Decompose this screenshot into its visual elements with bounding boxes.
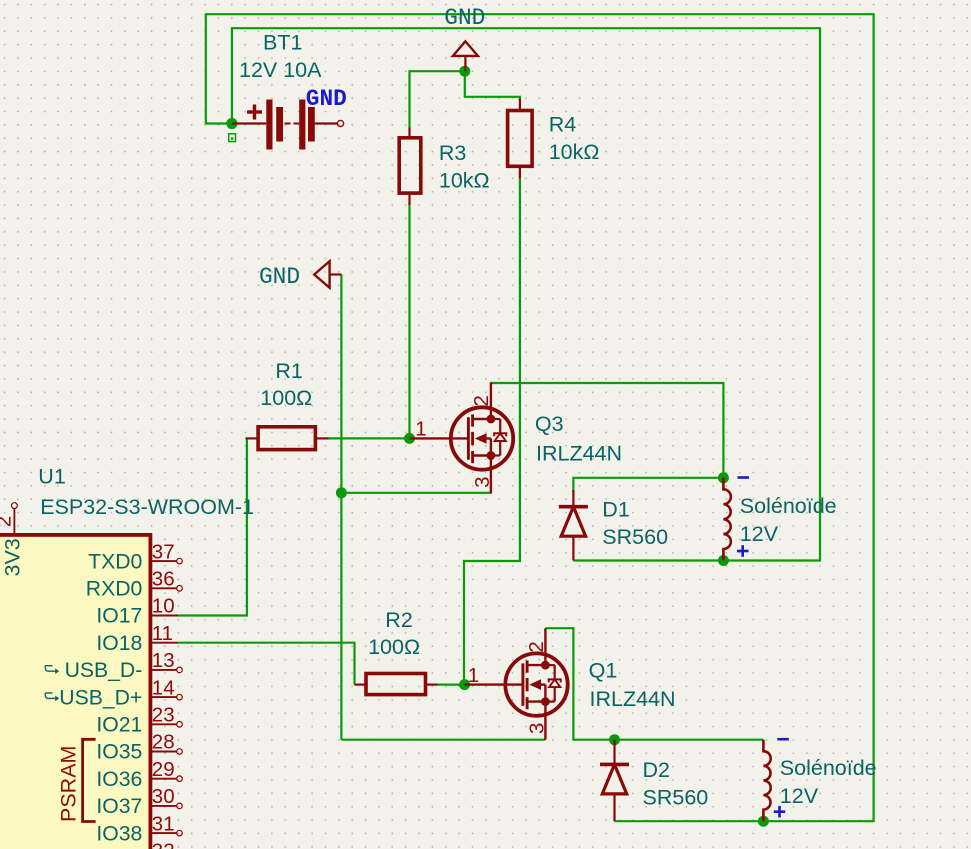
svg-text:IO37: IO37 (96, 795, 142, 818)
wire battery+ inner rail to solenoide1 bottom (232, 28, 820, 560)
svg-text:3: 3 (471, 476, 494, 487)
junction solenoide2 bottom node (758, 816, 769, 827)
pin 30 IO37 U1 (96, 785, 182, 818)
wire solenoide1 top to D1 cathode (573, 478, 723, 492)
svg-text:13: 13 (152, 649, 175, 672)
pin 2 3V3 top (12, 503, 18, 535)
junction Q3 gate node (404, 433, 415, 444)
svg-text:37: 37 (152, 540, 175, 563)
IC U1 ESP32-S3-WROOM-1 body (0, 535, 150, 849)
svg-text:36: 36 (152, 568, 175, 591)
svg-text:30: 30 (152, 785, 175, 808)
svg-text:PSRAM: PSRAM (57, 746, 81, 822)
svg-text:IO18: IO18 (96, 632, 142, 655)
svg-text:10kΩ: 10kΩ (439, 169, 490, 193)
wire GND row to Q1 source (341, 739, 545, 741)
wire Q1 drain to solenoide2 top (545, 628, 763, 740)
polarity plus solenoide 2 (774, 810, 786, 813)
svg-text:Solénoïde: Solénoïde (780, 756, 877, 780)
svg-text:IO38: IO38 (96, 822, 142, 845)
pin 32 IO48 U1 (152, 840, 175, 849)
svg-text:12V: 12V (780, 784, 819, 808)
pin 11 IO18 U1 (96, 622, 178, 655)
polarity plus solenoide 1 (737, 550, 749, 553)
svg-text:28: 28 (152, 731, 175, 754)
svg-text:100Ω: 100Ω (368, 635, 420, 659)
junction GND node (459, 66, 470, 77)
D1 cathode pin (572, 490, 574, 507)
inductor solenoide 1 (723, 478, 730, 561)
pin 10 IO17 U1 (96, 595, 178, 628)
svg-text:14: 14 (152, 676, 175, 699)
pin 29 IO36 U1 (96, 758, 182, 791)
svg-text:USB_D+: USB_D+ (59, 686, 142, 709)
wire R2 right to Q1 gate node (438, 683, 465, 685)
svg-text:GND: GND (259, 264, 300, 290)
svg-text:D1: D1 (602, 498, 629, 522)
D2 anode pin (613, 794, 615, 821)
PSRAM group bracket (83, 739, 96, 821)
pin 37 TXD0 U1 (88, 540, 182, 573)
resistor R3 10k (399, 138, 421, 193)
pin 36 RXD0 U1 (86, 568, 183, 601)
transistor Q1 IRLZ44N N-MOSFET (505, 628, 567, 739)
junction GND column at Q3 source (336, 487, 347, 498)
wire IO18 to R2 left (178, 643, 355, 685)
wire GND column (340, 275, 342, 740)
pin 13 USB_D- U1 (65, 649, 183, 682)
polarity minus solenoide 1 (738, 476, 750, 479)
pin 28 IO35 U1 (96, 731, 182, 764)
wire R1 right to Q3 gate node (329, 437, 410, 439)
svg-text:100Ω: 100Ω (260, 386, 312, 410)
svg-text:TXD0: TXD0 (88, 550, 142, 573)
junction solenoide1 bottom node (718, 555, 729, 566)
svg-text:29: 29 (152, 758, 175, 781)
wire R3 bottom to Q3 gate node (408, 205, 410, 438)
svg-text:12V 10A: 12V 10A (239, 58, 322, 82)
wire R4 bottom to Q1 gate node (464, 179, 520, 685)
svg-text:R2: R2 (385, 608, 412, 632)
svg-text:12V: 12V (740, 522, 779, 546)
svg-text:U1: U1 (38, 465, 65, 489)
svg-text:10kΩ: 10kΩ (549, 140, 600, 164)
pin 23 IO21 U1 (96, 704, 182, 737)
svg-text:R1: R1 (275, 359, 302, 383)
svg-text:GND: GND (306, 86, 347, 112)
wire IO17 to R1 left (178, 438, 247, 615)
inductor solenoide 2 (763, 740, 770, 822)
svg-text:R4: R4 (549, 113, 577, 137)
wire Q3 drain to solenoide1 top (491, 383, 724, 478)
svg-text:2: 2 (470, 395, 493, 406)
svg-text:R3: R3 (439, 141, 467, 165)
junction D2 anode node (609, 734, 620, 745)
svg-text:31: 31 (152, 812, 175, 835)
svg-text:D2: D2 (643, 758, 670, 782)
svg-text:IO36: IO36 (96, 768, 142, 791)
resistor R2 100 (366, 674, 426, 695)
svg-text:IRLZ44N: IRLZ44N (590, 687, 676, 711)
diode D2 SR560 (600, 764, 629, 794)
junction solenoide1 top node (718, 472, 729, 483)
svg-text:1: 1 (468, 664, 479, 687)
svg-text:IO35: IO35 (96, 741, 142, 764)
D1 anode pin (572, 536, 574, 560)
resistor R4 10k (508, 111, 532, 167)
wire battery+ outer rail to solenoide2 bottom (206, 14, 874, 821)
svg-text:IO21: IO21 (96, 714, 142, 737)
junction Q1 gate node (459, 679, 470, 690)
power symbol GND top (453, 41, 478, 71)
svg-text:SR560: SR560 (643, 785, 709, 809)
net marker square at battery node (229, 134, 236, 142)
svg-text:3: 3 (526, 723, 549, 734)
svg-text:GND: GND (444, 5, 485, 31)
svg-text:ESP32-S3-WROOM-1: ESP32-S3-WROOM-1 (40, 495, 254, 519)
svg-text:Q3: Q3 (535, 412, 564, 436)
polarity minus solenoide 2 (777, 738, 789, 741)
wire GND symbol to R3 and R4 tops (410, 71, 520, 127)
pin decoration bidirectional arrows (45, 693, 59, 701)
svg-text:SR560: SR560 (602, 525, 668, 549)
D2 cathode pin (613, 740, 615, 765)
svg-text:23: 23 (152, 704, 175, 727)
svg-text:1: 1 (415, 418, 426, 441)
svg-text:10: 10 (152, 595, 175, 618)
pin 31 IO38 U1 (96, 812, 182, 845)
svg-text:2: 2 (525, 641, 548, 652)
battery BT1 (232, 100, 344, 150)
power symbol GND left flag (314, 261, 341, 288)
svg-text:Q1: Q1 (589, 658, 618, 682)
Q1 gate pin (465, 683, 523, 685)
svg-text:3V3: 3V3 (1, 538, 25, 576)
svg-text:IRLZ44N: IRLZ44N (536, 441, 622, 465)
svg-text:11: 11 (152, 622, 173, 645)
svg-text:2: 2 (0, 516, 15, 527)
diode D1 SR560 (559, 507, 588, 537)
svg-text:BT1: BT1 (263, 31, 302, 55)
svg-text:USB_D-: USB_D- (65, 659, 143, 682)
svg-text:Solénoïde: Solénoïde (740, 494, 837, 518)
wire Q3 source to GND column (341, 492, 491, 494)
svg-text:RXD0: RXD0 (86, 578, 143, 601)
svg-text:IO17: IO17 (96, 605, 142, 628)
resistor R1 100 (258, 427, 315, 450)
junction battery positive node (226, 118, 237, 129)
svg-text:32: 32 (152, 840, 175, 849)
pin decoration bidirectional arrows (45, 666, 59, 674)
pin 14 USB_D+ U1 (59, 676, 182, 709)
Q3 gate pin (410, 437, 469, 439)
transistor Q3 IRLZ44N N-MOSFET (451, 382, 513, 493)
